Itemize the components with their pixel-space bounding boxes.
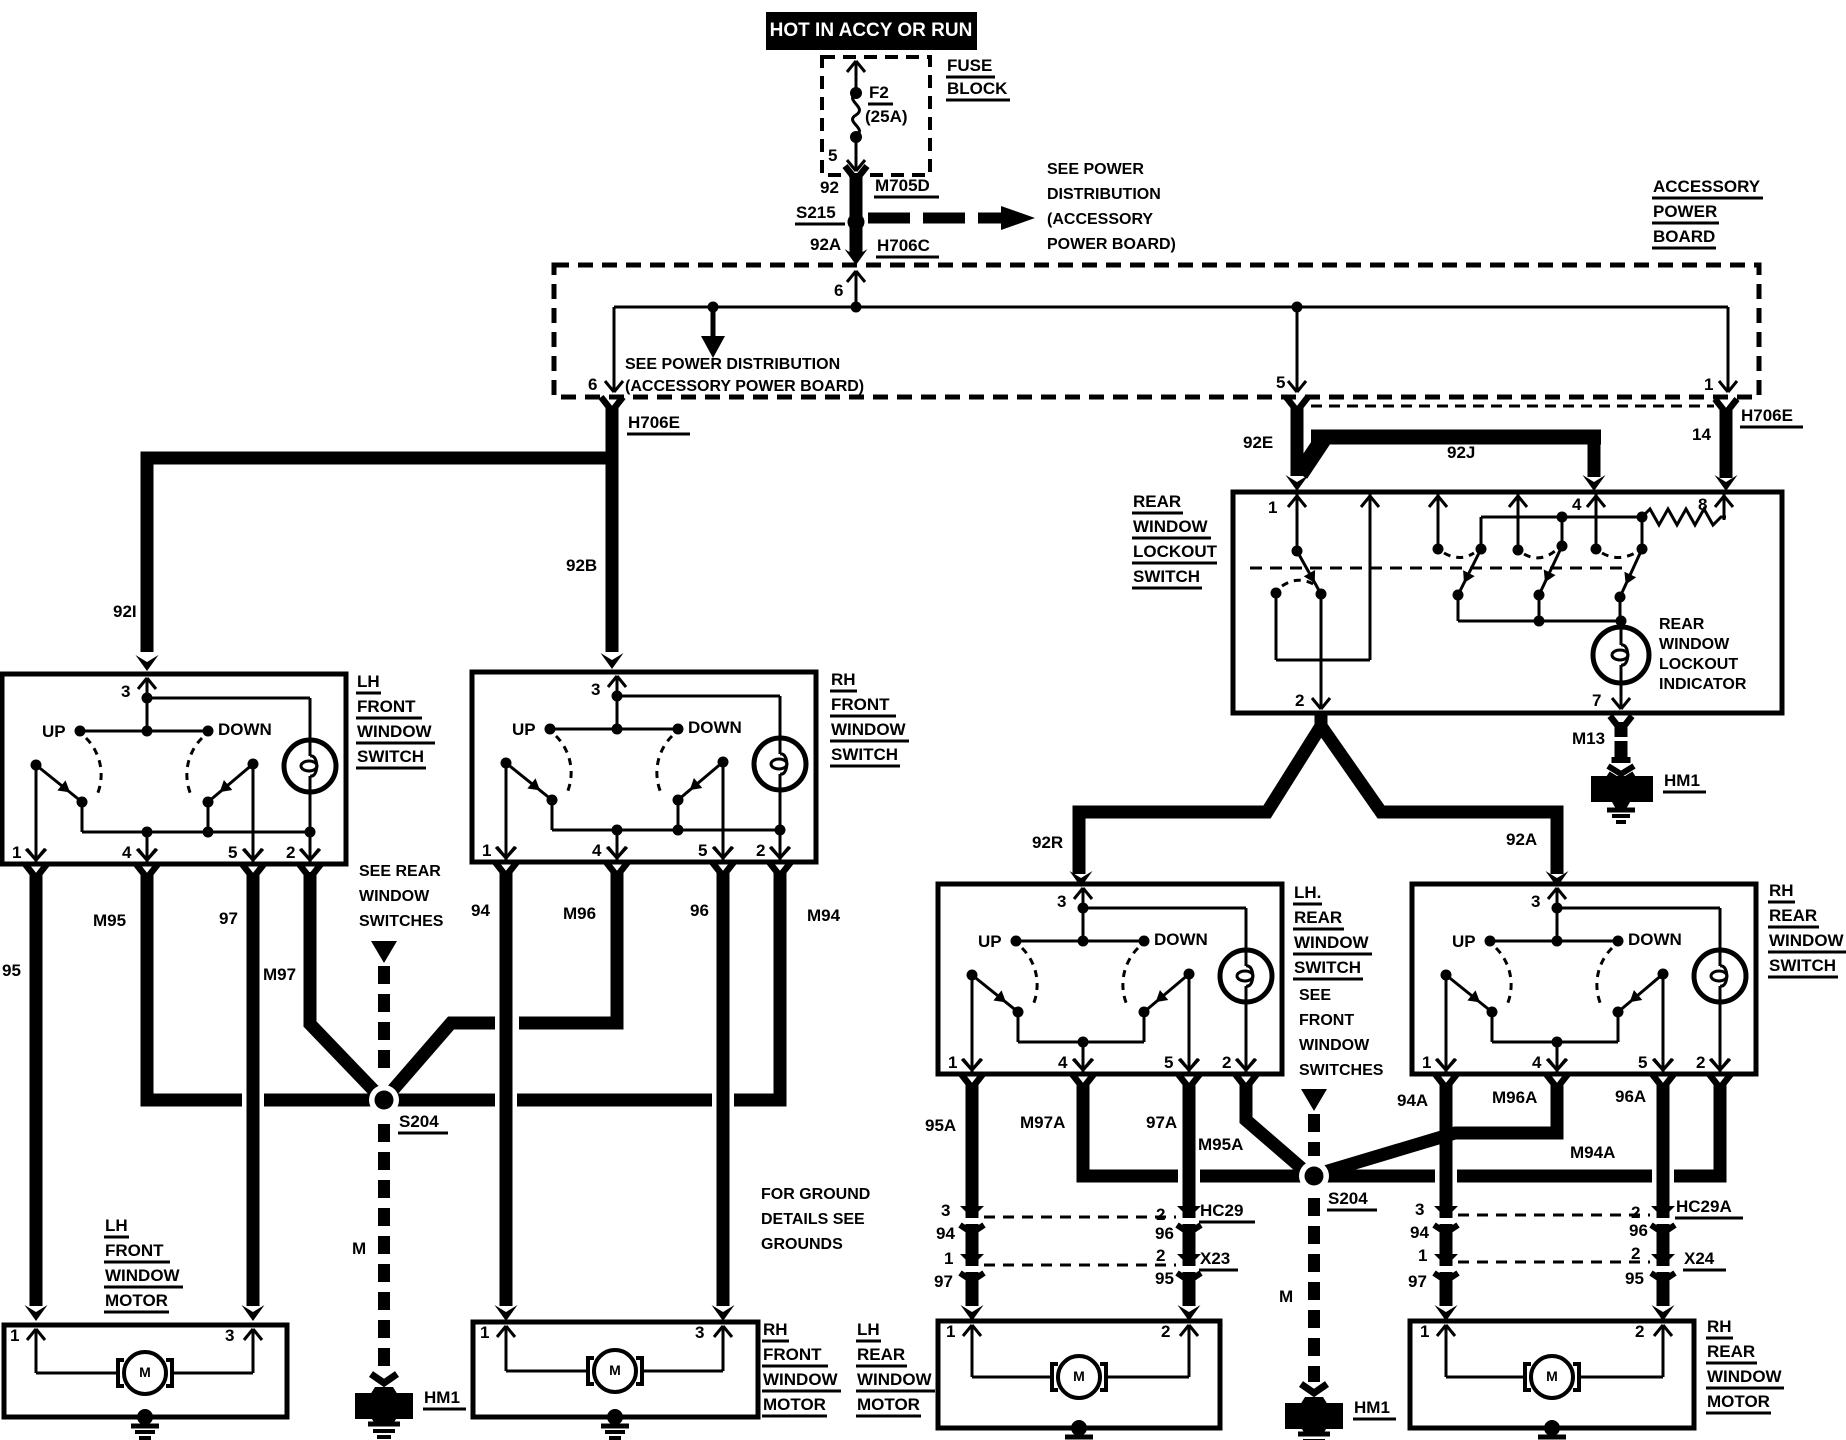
svg-text:M96: M96 [563,904,596,923]
svg-text:POWER BOARD): POWER BOARD) [1047,236,1176,253]
svg-text:3: 3 [941,1201,950,1220]
svg-text:M94: M94 [807,906,841,925]
svg-text:WINDOW: WINDOW [105,1266,181,1285]
svg-text:FRONT: FRONT [357,697,416,716]
svg-text:1: 1 [12,843,21,862]
svg-text:WINDOW: WINDOW [1294,933,1370,952]
svg-text:DETAILS SEE: DETAILS SEE [761,1211,865,1228]
svg-text:MOTOR: MOTOR [763,1395,826,1414]
svg-text:WINDOW: WINDOW [1299,1037,1370,1054]
svg-text:LH: LH [105,1216,128,1235]
svg-text:M97: M97 [263,965,296,984]
svg-text:6: 6 [834,281,843,300]
svg-text:REAR: REAR [1294,908,1342,927]
svg-text:RH: RH [1769,881,1794,900]
svg-text:1: 1 [1268,498,1277,517]
svg-text:HM1: HM1 [1354,1398,1390,1417]
svg-text:FUSE: FUSE [947,56,992,75]
svg-text:2: 2 [1156,1205,1165,1224]
svg-text:S204: S204 [1328,1189,1368,1208]
svg-text:96: 96 [1155,1224,1174,1243]
svg-text:1: 1 [944,1249,953,1268]
svg-text:HM1: HM1 [424,1388,460,1407]
svg-text:1: 1 [480,1323,489,1342]
svg-text:F2: F2 [869,83,889,102]
svg-text:DOWN: DOWN [1628,930,1682,949]
svg-text:6: 6 [588,375,597,394]
svg-text:M: M [609,1362,621,1378]
svg-text:M: M [1279,1287,1293,1306]
svg-text:3: 3 [591,680,600,699]
svg-text:SWITCH: SWITCH [1133,567,1200,586]
svg-text:97: 97 [219,909,238,928]
svg-text:2: 2 [756,841,765,860]
svg-text:WINDOW: WINDOW [359,888,430,905]
svg-text:97: 97 [1408,1272,1427,1291]
svg-text:SEE POWER: SEE POWER [1047,161,1144,178]
svg-text:95A: 95A [925,1116,956,1135]
svg-text:DOWN: DOWN [218,720,272,739]
svg-text:UP: UP [42,722,66,741]
svg-text:2: 2 [1696,1053,1705,1072]
svg-text:LH: LH [857,1320,880,1339]
svg-text:HM1: HM1 [1664,771,1700,790]
svg-text:RH: RH [831,670,856,689]
svg-text:DOWN: DOWN [1154,930,1208,949]
svg-text:WINDOW: WINDOW [857,1370,933,1389]
svg-text:M: M [1546,1368,1558,1384]
svg-text:WINDOW: WINDOW [1769,931,1845,950]
svg-text:WINDOW: WINDOW [763,1370,839,1389]
svg-text:SWITCHES: SWITCHES [1299,1062,1384,1079]
svg-text:96A: 96A [1615,1087,1646,1106]
svg-text:94: 94 [471,901,490,920]
svg-text:DOWN: DOWN [688,718,742,737]
svg-text:MOTOR: MOTOR [1707,1392,1770,1411]
svg-text:SEE REAR: SEE REAR [359,863,441,880]
svg-text:1: 1 [948,1053,957,1072]
svg-text:BOARD: BOARD [1653,227,1715,246]
svg-text:SEE: SEE [1299,987,1331,1004]
svg-text:BLOCK: BLOCK [947,79,1008,98]
svg-text:M: M [139,1364,151,1380]
svg-text:H706C: H706C [877,236,930,255]
svg-text:2: 2 [1635,1322,1644,1341]
svg-text:M97A: M97A [1020,1113,1065,1132]
svg-text:5: 5 [1638,1053,1647,1072]
svg-text:M705D: M705D [875,176,930,195]
svg-text:SWITCH: SWITCH [357,747,424,766]
svg-text:1: 1 [1704,375,1713,394]
svg-text:WINDOW: WINDOW [831,720,907,739]
svg-text:2: 2 [1156,1246,1165,1265]
svg-text:1: 1 [1422,1053,1431,1072]
svg-text:3: 3 [1057,892,1066,911]
svg-text:5: 5 [1164,1053,1173,1072]
svg-text:WINDOW: WINDOW [357,722,433,741]
svg-text:INDICATOR: INDICATOR [1659,676,1747,693]
svg-text:SWITCH: SWITCH [1294,958,1361,977]
svg-text:X24: X24 [1684,1249,1715,1268]
svg-text:POWER: POWER [1653,202,1717,221]
svg-text:SEE POWER DISTRIBUTION: SEE POWER DISTRIBUTION [625,356,840,373]
svg-text:94A: 94A [1397,1091,1428,1110]
svg-text:M95A: M95A [1198,1135,1243,1154]
svg-text:HOT IN ACCY OR RUN: HOT IN ACCY OR RUN [770,20,973,41]
svg-text:(25A): (25A) [865,107,908,126]
svg-text:FRONT: FRONT [105,1241,164,1260]
svg-text:92A: 92A [810,235,841,254]
svg-text:LH: LH [357,672,380,691]
svg-text:(ACCESSORY: (ACCESSORY [1047,211,1153,228]
svg-text:4: 4 [1058,1053,1068,1072]
svg-text:94: 94 [1410,1223,1429,1242]
svg-text:92: 92 [820,178,839,197]
svg-text:GROUNDS: GROUNDS [761,1236,843,1253]
svg-text:FRONT: FRONT [763,1345,822,1364]
svg-text:95: 95 [1625,1269,1644,1288]
svg-text:92E: 92E [1243,433,1273,452]
svg-text:H706E: H706E [628,413,680,432]
svg-text:97: 97 [934,1272,953,1291]
svg-text:14: 14 [1692,425,1711,444]
svg-text:M95: M95 [93,911,126,930]
svg-text:WINDOW: WINDOW [1707,1367,1783,1386]
svg-text:HC29A: HC29A [1676,1197,1732,1216]
svg-text:2: 2 [1161,1322,1170,1341]
svg-text:LH.: LH. [1294,883,1321,902]
svg-text:ACCESSORY: ACCESSORY [1653,177,1761,196]
svg-text:4: 4 [1572,495,1582,514]
svg-text:92B: 92B [566,556,597,575]
svg-text:M13: M13 [1572,729,1605,748]
svg-text:3: 3 [225,1326,234,1345]
svg-text:M: M [1073,1368,1085,1384]
svg-text:M94A: M94A [1570,1143,1615,1162]
svg-text:LOCKOUT: LOCKOUT [1659,656,1738,673]
svg-text:UP: UP [1452,932,1476,951]
svg-text:96: 96 [690,901,709,920]
svg-text:H706E: H706E [1741,406,1793,425]
svg-text:M96A: M96A [1492,1088,1537,1107]
svg-text:92I: 92I [113,602,137,621]
svg-text:X23: X23 [1200,1249,1230,1268]
svg-text:FRONT: FRONT [831,695,890,714]
svg-text:3: 3 [1531,892,1540,911]
svg-text:HC29: HC29 [1200,1201,1243,1220]
svg-text:4: 4 [1532,1053,1542,1072]
svg-text:M: M [352,1239,366,1258]
svg-text:95: 95 [2,961,21,980]
svg-text:S204: S204 [399,1112,439,1131]
svg-text:DISTRIBUTION: DISTRIBUTION [1047,186,1161,203]
svg-text:REAR: REAR [1707,1342,1755,1361]
svg-text:1: 1 [1418,1246,1427,1265]
svg-text:REAR: REAR [1769,906,1817,925]
svg-text:92J: 92J [1447,443,1475,462]
svg-text:5: 5 [828,146,837,165]
svg-text:5: 5 [228,843,237,862]
svg-text:SWITCH: SWITCH [1769,956,1836,975]
svg-text:92A: 92A [1506,830,1537,849]
svg-text:5: 5 [698,841,707,860]
svg-text:1: 1 [1420,1322,1429,1341]
svg-text:WINDOW: WINDOW [1659,636,1730,653]
svg-text:REAR: REAR [857,1345,905,1364]
svg-text:2: 2 [1222,1053,1231,1072]
svg-text:4: 4 [122,843,132,862]
svg-text:96: 96 [1629,1221,1648,1240]
svg-text:RH: RH [1707,1317,1732,1336]
svg-text:3: 3 [121,682,130,701]
svg-text:7: 7 [1592,691,1601,710]
svg-text:WINDOW: WINDOW [1133,517,1209,536]
svg-text:SWITCH: SWITCH [831,745,898,764]
svg-text:FRONT: FRONT [1299,1012,1354,1029]
svg-text:2: 2 [286,843,295,862]
svg-text:4: 4 [592,841,602,860]
svg-text:1: 1 [10,1326,19,1345]
svg-text:3: 3 [695,1323,704,1342]
svg-text:REAR: REAR [1133,492,1181,511]
svg-text:UP: UP [512,720,536,739]
svg-text:92R: 92R [1032,833,1063,852]
svg-text:1: 1 [482,841,491,860]
svg-text:REAR: REAR [1659,616,1705,633]
svg-text:(ACCESSORY POWER BOARD): (ACCESSORY POWER BOARD) [625,378,864,395]
svg-text:SWITCHES: SWITCHES [359,913,444,930]
svg-text:1: 1 [946,1322,955,1341]
svg-text:97A: 97A [1146,1113,1177,1132]
svg-text:FOR GROUND: FOR GROUND [761,1186,870,1203]
svg-text:3: 3 [1415,1200,1424,1219]
svg-text:RH: RH [763,1320,788,1339]
svg-text:2: 2 [1631,1203,1640,1222]
svg-text:95: 95 [1155,1269,1174,1288]
svg-text:S215: S215 [796,203,836,222]
svg-text:5: 5 [1276,373,1285,392]
svg-text:MOTOR: MOTOR [105,1291,168,1310]
svg-text:UP: UP [978,932,1002,951]
svg-text:2: 2 [1295,691,1304,710]
svg-text:MOTOR: MOTOR [857,1395,920,1414]
svg-text:94: 94 [936,1224,955,1243]
svg-text:2: 2 [1631,1244,1640,1263]
svg-text:LOCKOUT: LOCKOUT [1133,542,1218,561]
